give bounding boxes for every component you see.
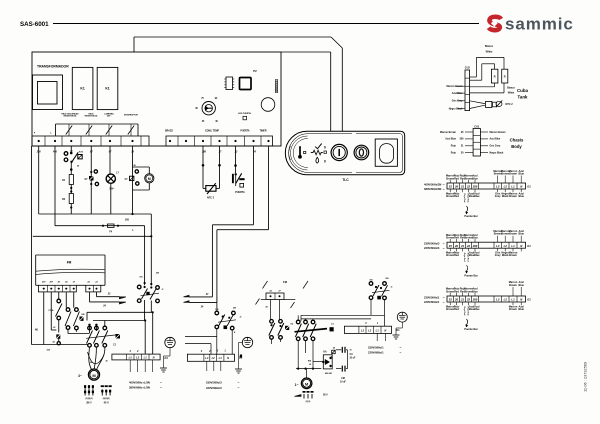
svg-text:TRANSFORMADOR: TRANSFORMADOR (37, 65, 69, 69)
svg-text:Rojo: Rojo (451, 151, 457, 154)
svg-text:M: M (148, 177, 151, 181)
svg-text:TLC: TLC (342, 178, 349, 182)
wire bus (1ph motor) (296, 341, 321, 378)
board output contacts (56, 124, 139, 136)
svg-text:D1: D1 (165, 356, 169, 360)
resistor R3 (62, 190, 73, 214)
svg-text:Brown: Brown (509, 254, 517, 257)
svg-text:~: ~ (443, 247, 445, 251)
svg-text:Marron Brown: Marron Brown (447, 85, 464, 88)
svg-text:~: ~ (443, 296, 445, 300)
svg-text:(2)(2)(2): (2)(2)(2) (103, 398, 110, 400)
svg-text:N: N (384, 328, 386, 332)
svg-text:~: ~ (160, 381, 162, 385)
CU1 right labels (480, 131, 506, 155)
control board outline (32, 52, 281, 146)
svg-text:Puente Bar: Puente Bar (464, 274, 477, 277)
svg-text:Blue: Blue (518, 172, 524, 175)
voltage label 1ph (368, 345, 402, 355)
svg-text:KA: KA (323, 351, 327, 354)
svg-text:Negro Black: Negro Black (449, 107, 463, 110)
svg-text:P2: P2 (253, 69, 257, 73)
svg-text:LED PUERTA: LED PUERTA (238, 112, 251, 115)
svg-text:Red: Red (454, 308, 459, 311)
svg-text:200: 200 (472, 298, 478, 302)
svg-text:L1: L1 (511, 185, 515, 189)
button 0 (354, 145, 369, 160)
resistor R1 (62, 170, 73, 192)
terminal strip D1 (400V) (112, 350, 168, 372)
table3 wire labels above (446, 281, 525, 296)
svg-text:Rojo Red: Rojo Red (463, 194, 465, 204)
label Cuba Tank (517, 88, 529, 100)
relay K1 (72, 67, 93, 109)
svg-text:L3: L3 (496, 298, 500, 302)
winding diagram delta (101, 385, 112, 404)
svg-text:CU1: CU1 (474, 125, 480, 128)
svg-text:~: ~ (238, 386, 240, 390)
svg-text:36: 36 (105, 361, 107, 363)
contactor C1 (3-pole) (86, 321, 120, 348)
svg-text:Tank: Tank (518, 94, 528, 99)
svg-text:1~: 1~ (295, 383, 299, 387)
svg-text:CA: CA (350, 353, 354, 356)
svg-text:Red: Red (454, 237, 459, 240)
svg-text:KM: KM (308, 360, 311, 362)
svg-text:3~: 3~ (78, 374, 82, 378)
label Blanco White (485, 45, 494, 54)
svg-text:21: 21 (460, 185, 465, 189)
svg-text:Blue: Blue (472, 290, 478, 293)
table2 wire labels above (446, 230, 525, 242)
svg-text:40 V: 40 V (104, 401, 109, 404)
svg-text:220V/60Hz/3: 220V/60Hz/3 (206, 386, 222, 390)
svg-text:Black: Black (502, 195, 509, 198)
svg-text:Blue: Blue (474, 195, 480, 198)
arrow wire 24 out (90, 292, 126, 307)
terminal strip left (board) (32, 133, 149, 147)
svg-text:Blue: Blue (518, 233, 524, 236)
svg-text:CM: CM (341, 378, 345, 380)
svg-text:TIMER: TIMER (260, 131, 267, 133)
relay KA with caps (308, 348, 336, 376)
table1 wire labels below (446, 189, 525, 203)
contact K /1 (1ph) (369, 278, 393, 300)
svg-text:230V/50Hz/3: 230V/50Hz/3 (424, 242, 440, 246)
heater icon (311, 150, 327, 155)
svg-text:220V/60Hz/3: 220V/60Hz/3 (424, 246, 440, 250)
svg-text:~: ~ (443, 242, 445, 246)
earth terminal 400V (160, 337, 175, 372)
svg-text:230V/50Hz/3: 230V/50Hz/3 (206, 381, 222, 385)
table3 wire labels below (446, 302, 525, 316)
svg-text:15: 15 (449, 298, 453, 302)
relay K1 (97, 67, 118, 109)
svg-text:Blue: Blue (474, 308, 480, 311)
svg-text:Brown: Brown (509, 172, 517, 175)
display window (375, 139, 397, 166)
capacitor CM 10uF (336, 366, 348, 384)
svg-text:L1: L1 (511, 298, 515, 302)
CU1 left labels (440, 131, 473, 155)
svg-text:Brown: Brown (509, 308, 517, 311)
voltage label 400V (129, 380, 162, 390)
svg-text:CONS. TEMP: CONS. TEMP (205, 131, 220, 133)
svg-text:Blanco: Blanco (507, 87, 515, 90)
motor leads with slack loop (88, 347, 108, 369)
terminal strip D1 (230V 3ph) (187, 350, 242, 372)
contact CT1A (48, 292, 62, 333)
svg-text:22: 22 (466, 298, 471, 302)
svg-text:Cuba: Cuba (517, 88, 529, 93)
svg-text:380V/60Hz/3N: 380V/60Hz/3N (424, 187, 441, 191)
chip U2 (240, 78, 252, 90)
svg-text:26: 26 (454, 185, 459, 189)
contact KB main (2-pole) (137, 273, 164, 322)
wires to strip (230V 3ph) (185, 302, 232, 354)
thermistor NTC 2 (202, 146, 221, 199)
thermostat KT1 (64, 146, 84, 171)
svg-text:Blue: Blue (518, 308, 524, 311)
svg-text:220V/60Hz/1: 220V/60Hz/1 (424, 300, 440, 304)
svg-text:Blue: Blue (474, 254, 480, 257)
wires FM to chains (44, 292, 57, 345)
svg-text:R: R (494, 76, 496, 79)
svg-text:PUERTA: PUERTA (235, 191, 245, 194)
svg-text:N: N (227, 356, 229, 360)
svg-text:FM: FM (67, 261, 72, 265)
control panel TLC outline (285, 131, 404, 174)
fuse F4 (102, 224, 145, 283)
table2 wire labels below (446, 248, 521, 262)
strip section labels (165, 130, 267, 133)
probe NTC 2 (470, 100, 514, 108)
button I (331, 144, 347, 160)
lamp L7 24V (106, 146, 119, 214)
svg-text:~: ~ (400, 346, 402, 350)
contact K2 left pair (269, 300, 294, 345)
svg-text:L2: L2 (504, 185, 508, 189)
svg-text:Red: Red (454, 177, 459, 180)
svg-text:L3: L3 (496, 244, 500, 248)
svg-text:Red: Red (454, 195, 459, 198)
svg-text:N: N (153, 355, 155, 359)
svg-text:20: 20 (454, 244, 459, 248)
routing (1ph) (296, 300, 385, 327)
svg-text:(2)(2)(2): (2)(2)(2) (86, 398, 93, 400)
svg-text:Gris Grey: Gris Grey (490, 145, 501, 148)
svg-text:Azul Blue: Azul Blue (452, 92, 463, 95)
FM terminal row right (86, 281, 101, 292)
earth terminal (1ph) (393, 312, 408, 339)
svg-text:Blanco: Blanco (485, 45, 494, 48)
svg-text:Chasis: Chasis (510, 138, 524, 143)
heating element R right (502, 69, 508, 83)
svg-text:White: White (508, 92, 515, 95)
bus corner down (150, 214, 152, 237)
svg-text:Grey: Grey (495, 195, 501, 198)
svg-text:21: 21 (460, 244, 465, 248)
svg-text:3N Y: 3N Y (86, 401, 92, 404)
svg-text:Puente Bar: Puente Bar (464, 215, 477, 218)
wire 27 long run (184, 146, 269, 308)
svg-text:~: ~ (238, 381, 240, 385)
wire F down-left (31, 146, 33, 345)
voltage labels T1-400V (424, 182, 445, 191)
right strip terminal numbers (202, 150, 256, 153)
FM break lines (256, 299, 296, 309)
svg-text:SAS-6001: SAS-6001 (20, 21, 49, 28)
svg-text:38 V: 38 V (323, 394, 328, 396)
connector J1 (275, 80, 277, 93)
LED PUERTA (238, 112, 251, 120)
contact K /1 (230V 3ph) (215, 297, 242, 334)
transformer T1 (33, 75, 63, 110)
label Blanco White 2 (507, 87, 515, 95)
motor M single phase (295, 378, 312, 389)
svg-text:Brown: Brown (509, 233, 517, 236)
svg-text:22: 22 (466, 244, 471, 248)
door switch PUERTA (233, 146, 245, 194)
title rule (53, 23, 479, 25)
svg-text:11-06 : 23732569: 11-06 : 23732569 (583, 362, 588, 392)
svg-text:200: 200 (125, 219, 130, 222)
voltage labels T2-230V-3 (424, 242, 445, 251)
svg-text:L2: L2 (504, 244, 508, 248)
svg-text:M: M (305, 382, 308, 386)
svg-text:Brown: Brown (509, 284, 517, 287)
svg-text:L3: L3 (496, 185, 500, 189)
svg-text:L1: L1 (511, 244, 515, 248)
wire 400 to fuse bus (55, 146, 145, 226)
buzzer (261, 98, 275, 112)
svg-text:200: 200 (460, 138, 465, 141)
thermometer icon (298, 146, 306, 159)
svg-text:CU2: CU2 (465, 66, 471, 69)
svg-text:White: White (486, 51, 493, 54)
svg-text:Azul Blue: Azul Blue (445, 138, 456, 141)
heating element R left (491, 69, 498, 83)
svg-text:Marron Brown: Marron Brown (490, 131, 507, 134)
earth terminal (230V 3ph) (235, 337, 253, 373)
svg-text:10 uF: 10 uF (340, 381, 347, 383)
svg-text:380V/60Hz+L/3N: 380V/60Hz+L/3N (129, 386, 150, 390)
svg-text:Marron Brown: Marron Brown (440, 131, 457, 134)
svg-text:~: ~ (443, 183, 445, 187)
svg-text:Body: Body (511, 144, 522, 149)
svg-text:INTERRUPTOR: INTERRUPTOR (124, 114, 138, 116)
svg-text:PUERTA: PUERTA (240, 130, 249, 133)
svg-text:RESISTENCIA: RESISTENCIA (64, 115, 77, 118)
contact KB aux (65, 292, 90, 334)
terminal strip D1 (1ph) (344, 323, 400, 341)
svg-text:Rojo: Rojo (451, 145, 457, 148)
contactor C1 right (1ph) (295, 315, 335, 340)
svg-text:BRAZO: BRAZO (165, 130, 173, 133)
svg-text:Blue: Blue (472, 237, 478, 240)
svg-text:220V/60Hz/1: 220V/60Hz/1 (368, 351, 384, 355)
svg-text:0: 0 (324, 146, 326, 150)
logo sammic (489, 15, 574, 34)
winding diagram Y (84, 385, 94, 404)
svg-text:sammic: sammic (505, 15, 574, 34)
svg-text:22: 22 (466, 185, 471, 189)
relay coil K7 (85, 146, 99, 214)
svg-text:Azul Blue: Azul Blue (490, 138, 501, 141)
svg-text:45A NO: 45A NO (325, 372, 333, 375)
svg-text:20: 20 (454, 298, 459, 302)
puente bar arrow T2 (464, 265, 477, 277)
svg-text:NTC 2: NTC 2 (506, 103, 514, 106)
svg-text:Red: Red (454, 254, 459, 257)
svg-text:Rojo Red: Rojo Red (463, 253, 465, 263)
bottom bus to contactor (32, 344, 88, 346)
svg-text:400V/50Hz/3N: 400V/50Hz/3N (424, 182, 441, 186)
svg-text:R: R (504, 76, 506, 79)
puente bar arrow T3 (464, 319, 477, 331)
contact 41-42 with coil (47, 326, 61, 352)
label Chasis Body (510, 138, 524, 149)
title SAS-6001 (20, 21, 49, 28)
svg-text:25 uF: 25 uF (350, 358, 357, 360)
svg-text:~: ~ (160, 386, 162, 390)
svg-text:~: ~ (400, 351, 402, 355)
heater return wires (470, 83, 504, 93)
svg-text:NTC 2: NTC 2 (207, 196, 215, 199)
svg-text:~: ~ (443, 300, 445, 304)
svg-text:D1: D1 (527, 185, 531, 189)
filter module FM (36, 255, 105, 285)
connector CU1 (473, 125, 480, 156)
svg-text:K1: K1 (80, 87, 84, 91)
heater wires to resistors (470, 57, 504, 80)
svg-text:Black: Black (502, 254, 509, 257)
table1 wire labels above (446, 170, 525, 183)
FM terminal row left (38, 281, 76, 292)
terminal table T2-230V-3 (447, 242, 531, 248)
IC U1 (224, 77, 234, 90)
arrow wire 23 out (97, 292, 126, 299)
svg-text:L2: L2 (504, 298, 508, 302)
terminal table T3-230V-1 (447, 296, 531, 302)
svg-text:0: 0 (324, 159, 326, 163)
agitator motor M with contact C7 (125, 146, 154, 215)
svg-text:230V/50Hz/1: 230V/50Hz/1 (368, 345, 384, 349)
routing lines to strip D1 (87, 282, 153, 354)
check icon (315, 144, 326, 150)
capacitor CA 25uF (336, 347, 356, 369)
wire harness board-to-panel (134, 37, 342, 131)
terminal strip right (board) (166, 136, 273, 146)
FM module continuation (263, 280, 309, 300)
svg-text:200: 200 (472, 185, 478, 189)
svg-text:Grey: Grey (495, 254, 501, 257)
svg-text:Negro Black: Negro Black (490, 151, 504, 154)
svg-text:K1: K1 (105, 87, 109, 91)
svg-text:Brown: Brown (509, 195, 517, 198)
svg-text:15: 15 (449, 185, 453, 189)
wire 24 long run (184, 146, 254, 297)
svg-text:400V/50Hz+L/3N: 400V/50Hz+L/3N (129, 380, 150, 384)
svg-text:10: 10 (350, 350, 352, 352)
svg-text:D1: D1 (396, 328, 400, 332)
svg-text:Red: Red (454, 290, 459, 293)
wire 230 to bus (39, 146, 152, 214)
svg-text:15: 15 (449, 244, 453, 248)
droplet icon (316, 157, 326, 163)
puente bar arrow T1 (464, 206, 477, 218)
svg-text:Blue: Blue (518, 284, 524, 287)
svg-text:~: ~ (443, 187, 445, 191)
terminal table T1-400V (447, 183, 531, 189)
strip terminal numbers (36, 150, 135, 153)
svg-text:21: 21 (460, 298, 465, 302)
svg-text:RESISTENCIA: RESISTENCIA (85, 115, 98, 118)
svg-text:(2)(1): (2)(1) (306, 401, 311, 403)
svg-text:D1: D1 (527, 244, 531, 248)
svg-text:Puente Bar: Puente Bar (464, 328, 477, 331)
voltage label 230V 3ph (206, 381, 240, 391)
winding diagram 1ph (295, 391, 329, 403)
svg-text:200: 200 (472, 244, 478, 248)
CU2 wire labels (447, 85, 466, 110)
potentiometer CONS.TEMP dial (195, 98, 218, 123)
svg-text:Blue: Blue (472, 177, 478, 180)
voltage labels T3-230V-1 (424, 295, 445, 304)
connector CU2 (465, 66, 471, 110)
motor M 3-phase (78, 369, 99, 380)
svg-text:D1: D1 (527, 298, 531, 302)
relay function labels (61, 112, 138, 117)
bus to lower section (33, 236, 152, 284)
svg-text:24V~: 24V~ (109, 188, 115, 191)
svg-text:Blue: Blue (518, 195, 524, 198)
svg-text:230V/50Hz/1: 230V/50Hz/1 (424, 295, 440, 299)
svg-text:Rojo Red: Rojo Red (463, 307, 465, 317)
